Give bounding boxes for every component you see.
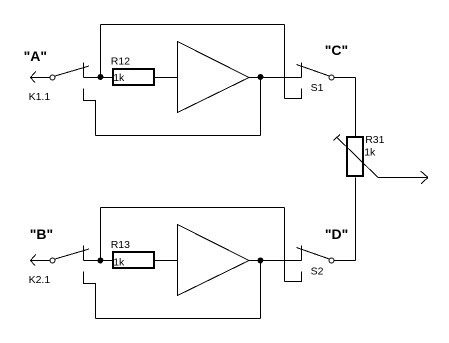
wire: top rail [101,24,285,26]
output arrow from R31 wiper [378,171,428,184]
node D label [325,226,348,242]
node B input arrow [31,254,51,265]
svg-text:1k: 1k [364,147,376,159]
switch S2 pivot circle [329,258,334,263]
op-amp U1 (top amplifier triangle) [178,42,250,113]
switch K2.1 upper contact tick [83,246,85,261]
wire: bottom feedback run [96,318,261,320]
switch S1 contact tick [301,63,303,78]
wire: S1 lower throw hook [285,89,302,99]
switch S1 label [311,82,324,94]
svg-text:"D": "D" [325,226,348,242]
switch K2.1 blade [55,249,89,259]
svg-text:S2: S2 [311,266,324,278]
switch K1.1 pivot circle [50,75,55,80]
switch S1 blade [297,65,330,77]
R13 label [111,239,130,251]
wire: op-amp output to S2 [248,260,302,262]
wire: R31 bottom to node D [355,178,357,261]
wire: R12 to op-amp input [155,77,178,79]
R13 value 1k [113,257,125,269]
R12 value 1k [113,72,125,84]
svg-text:"C": "C" [325,42,348,58]
switch K2.1 label [29,274,51,286]
svg-text:"B": "B" [30,226,53,242]
wire: op-amp output to S1 [248,77,302,79]
svg-text:"A": "A" [24,48,47,64]
switch S2 contact tick [301,246,303,261]
wire: top rail down to S1 lower throw [284,25,286,99]
node B label [30,226,53,242]
svg-text:R13: R13 [111,239,130,251]
junction dot: bottom output node [258,258,264,264]
switch K2.1 pivot circle [50,258,55,263]
svg-text:K1.1: K1.1 [29,91,51,103]
wire: output node down to feedback [260,261,262,319]
wire: bottom rail down to S2 lower throw [284,208,286,282]
resistor R31 (trimmer body) [346,136,364,177]
wire: R13 to op-amp input [155,260,178,262]
wire: B contact to input node [84,260,114,262]
wire: output node down to feedback [260,78,262,136]
switch S2 label [311,266,324,278]
junction dot: top output node [258,74,264,80]
node C label [325,42,348,58]
R31 trimmer wiper diagonal [334,135,379,178]
svg-text:S1: S1 [311,82,324,94]
node A label [24,48,47,64]
wire: top feedback run [96,135,261,137]
switch K1.1 blade [55,66,89,76]
R31 label [365,134,384,146]
switch S2 blade [297,248,330,260]
svg-text:K2.1: K2.1 [29,274,51,286]
svg-text:1k: 1k [113,72,125,84]
junction dot: top input node [98,74,104,80]
svg-text:R12: R12 [111,55,130,67]
wire: bottom rail [101,207,285,209]
wire: S2 to node D vertical [334,260,356,262]
resistor R13 [112,251,155,269]
switch K1.1 label [29,91,51,103]
switch K1.1 upper contact tick [83,63,85,78]
svg-text:R31: R31 [365,134,384,146]
switch S1 pivot circle [329,75,334,80]
switch K1.1 lower throw wire [84,89,96,136]
svg-text:1k: 1k [113,257,125,269]
op-amp U2 (bottom amplifier triangle) [178,225,250,296]
wire: S2 lower throw hook [285,272,302,282]
wire: S1 to node C vertical [334,78,356,138]
R12 label [111,55,130,67]
node A input arrow [31,71,51,82]
resistor R12 [112,68,155,86]
wire: input node up to top rail [100,25,102,78]
wire: A contact to input node [84,77,114,79]
switch K2.1 lower throw wire [84,272,96,319]
R31 value 1k [364,147,376,159]
wire: input node up to bottom rail [100,208,102,261]
junction dot: bottom input node [98,258,104,264]
